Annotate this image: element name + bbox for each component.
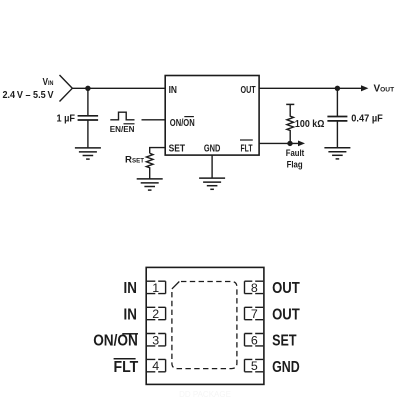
resistor R1 RSET	[146, 153, 153, 179]
svg-text:1: 1	[152, 281, 159, 295]
op-amp U1 load switch IC box	[165, 76, 259, 156]
exposed pad chamfer pin1	[172, 282, 179, 289]
svg-text:6: 6	[251, 333, 258, 347]
capacitor C1 1uF	[78, 116, 99, 120]
node junction dot at FLT	[287, 141, 292, 146]
svg-text:IN: IN	[169, 85, 177, 96]
svg-text:ON/ON: ON/ON	[170, 118, 195, 129]
pin 1 box	[147, 281, 166, 293]
svg-text:DD PACKAGE: DD PACKAGE	[179, 390, 231, 399]
svg-text:5: 5	[251, 359, 258, 373]
svg-text:SET: SET	[272, 333, 297, 350]
wire FLT	[259, 142, 298, 144]
svg-text:2: 2	[152, 307, 159, 321]
wire GND pin	[211, 155, 213, 178]
wire IN	[72, 87, 165, 89]
pin 2 box	[147, 307, 166, 319]
svg-text:VIN: VIN	[43, 77, 54, 88]
wire C1 to ground	[87, 120, 89, 148]
svg-text:RSET: RSET	[125, 155, 144, 166]
svg-text:EN/EN: EN/EN	[110, 124, 135, 134]
svg-text:Flag: Flag	[287, 160, 303, 170]
svg-text:IN: IN	[124, 280, 137, 297]
pin 8 box	[245, 281, 264, 293]
wire ON/ON	[142, 119, 166, 121]
pulse waveform EN	[110, 112, 134, 120]
svg-text:3: 3	[152, 333, 159, 347]
pin 7 box	[245, 307, 264, 319]
svg-text:SET: SET	[169, 144, 186, 155]
svg-text:7: 7	[251, 307, 258, 321]
svg-text:GND: GND	[272, 359, 300, 376]
wire OUT	[259, 87, 361, 89]
svg-text:GND: GND	[204, 144, 221, 155]
pin 6 box	[245, 334, 264, 346]
pin 3 box	[147, 334, 166, 346]
node junction dot at OUT	[335, 86, 340, 91]
package outline DFN	[146, 267, 264, 384]
arrowhead VOUT	[361, 85, 368, 91]
capacitor C2 0.47uF	[327, 117, 347, 121]
wire C2 to ground	[336, 121, 338, 148]
input port symbol VIN	[60, 75, 73, 102]
ground G3	[199, 178, 225, 189]
overline EN	[124, 123, 135, 125]
arrowhead fault flag	[298, 141, 305, 147]
svg-text:FLT: FLT	[114, 359, 139, 376]
svg-text:Fault: Fault	[286, 148, 305, 158]
svg-text:1 µF: 1 µF	[57, 113, 76, 124]
svg-text:0.47 µF: 0.47 µF	[351, 114, 383, 125]
svg-text:ON/ON: ON/ON	[93, 333, 138, 350]
ground G2	[137, 179, 163, 190]
svg-text:OUT: OUT	[241, 85, 257, 96]
overline ON	[184, 116, 194, 118]
pin 4 box	[147, 359, 166, 371]
wire to C1	[87, 88, 89, 116]
svg-text:OUT: OUT	[272, 280, 300, 297]
pin 5 box	[245, 359, 264, 371]
svg-text:4: 4	[152, 359, 159, 373]
svg-text:8: 8	[251, 281, 258, 295]
exposed pad dashed	[172, 282, 237, 369]
resistor R2 100k pull-up rail bar	[286, 103, 294, 105]
ground G1	[75, 148, 101, 159]
svg-text:100 kΩ: 100 kΩ	[295, 119, 325, 130]
ground G4	[324, 148, 350, 159]
svg-text:IN: IN	[124, 306, 137, 323]
resistor R2 100k	[287, 104, 294, 143]
overline ON pin3	[122, 333, 138, 335]
wire to C2	[336, 88, 338, 116]
overline FLT pin4	[114, 358, 136, 360]
wire SET	[150, 148, 166, 154]
node junction dot at VIN	[85, 86, 90, 91]
svg-text:FLT: FLT	[241, 144, 254, 155]
svg-text:VOUT: VOUT	[374, 84, 395, 95]
svg-text:2.4 V – 5.5 V: 2.4 V – 5.5 V	[3, 90, 54, 101]
svg-text:OUT: OUT	[272, 306, 300, 323]
overline FLT	[240, 139, 253, 141]
